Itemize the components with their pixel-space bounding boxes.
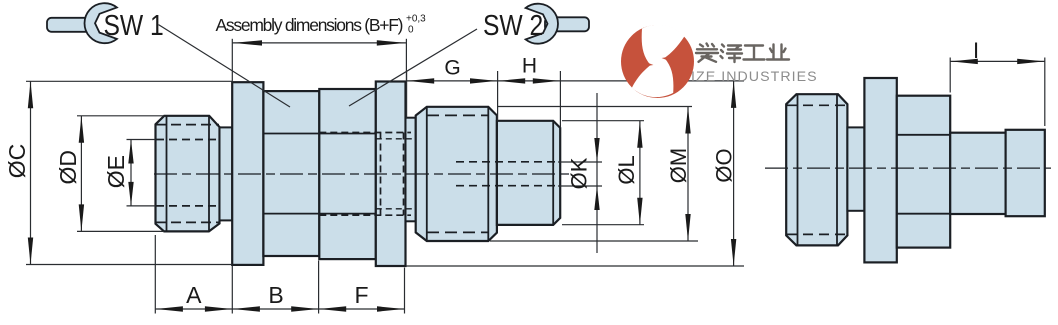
- hidden dashed second pair top: [376, 138, 416, 140]
- svg-text:G: G: [444, 57, 460, 80]
- right view thread block: [786, 94, 847, 245]
- sleeve C: [319, 89, 376, 259]
- hidden bore dashed bottom across C and D: [319, 214, 411, 216]
- dim F arrow right: [377, 306, 404, 311]
- G arrow right: [470, 78, 497, 83]
- dim OK arrow lower pointing up: [594, 186, 599, 210]
- logo red notch right: [662, 55, 685, 66]
- svg-text:SW 2: SW 2: [483, 9, 543, 41]
- hex collar A: [232, 82, 263, 265]
- bottom ext line at collar D right: [404, 268, 406, 314]
- H arrow left: [498, 78, 525, 83]
- dim OC line: [30, 81, 32, 264]
- left bore dashed bottom (OE): [156, 205, 219, 207]
- dim OL arrow up: [637, 121, 642, 148]
- right view thread minor dashed top: [787, 104, 847, 106]
- logo white S band: [632, 25, 685, 97]
- bore dashed line top right: [456, 161, 560, 163]
- logo red notch left: [631, 58, 654, 69]
- bore dashed line bottom right: [456, 185, 560, 187]
- dim OE extension bottom: [127, 205, 156, 207]
- dim F arrow left: [319, 306, 346, 311]
- G arrow left: [407, 78, 434, 83]
- dim OK ext bottom: [558, 185, 602, 187]
- dim OL ext bottom: [562, 224, 644, 226]
- dim OM ext top: [497, 106, 692, 108]
- dim OM arrow up: [685, 107, 690, 134]
- bottom ext line at collar A left: [231, 266, 233, 314]
- right view centerline: [765, 167, 1051, 169]
- assembly arrow right: [377, 40, 406, 45]
- right view thread minor dashed bottom: [787, 233, 847, 235]
- hex collar D: [376, 82, 406, 267]
- neck 1: [220, 127, 233, 220]
- dim OL line: [639, 121, 641, 225]
- svg-text:F: F: [354, 282, 368, 308]
- dim I arrow left: [951, 59, 978, 64]
- dim OK line: [596, 93, 598, 253]
- left thread block: [156, 116, 220, 232]
- dim OE extension top: [127, 139, 156, 141]
- right view end sleeve: [1006, 130, 1045, 216]
- right thread minor dashed bottom: [427, 231, 489, 233]
- assembly arrow left: [233, 40, 262, 45]
- wrench SW2: [526, 4, 589, 44]
- leader line SW1: [159, 25, 291, 107]
- hidden dashed vertical in D right: [403, 133, 405, 216]
- assembly dim extension right: [405, 39, 407, 82]
- svg-text:ØL: ØL: [614, 155, 639, 184]
- right view collar: [864, 78, 896, 262]
- dim B arrow left: [233, 306, 260, 311]
- dim OD arrow down: [79, 204, 84, 231]
- bottom ext line at B C boundary: [318, 261, 320, 314]
- right view thread chamfer left: [797, 94, 799, 245]
- bottom ext line at thread left face: [154, 235, 156, 314]
- dim OM arrow down: [685, 214, 690, 241]
- svg-text:ØE: ØE: [103, 155, 129, 188]
- dim B arrow right: [291, 306, 318, 311]
- left bore dashed top (OE): [156, 139, 219, 141]
- dim I ext left: [949, 58, 951, 93]
- svg-text:+0,3: +0,3: [406, 14, 426, 25]
- H right ext: [559, 71, 561, 128]
- dim I arrow right: [1017, 59, 1044, 64]
- svg-text:H: H: [522, 54, 537, 77]
- tip chamfer line: [552, 121, 554, 225]
- svg-text:I: I: [973, 38, 979, 63]
- svg-text:0: 0: [408, 25, 414, 36]
- tip section: [497, 121, 560, 225]
- right thread chamfer line left: [426, 107, 428, 241]
- dim I line: [950, 60, 1045, 62]
- svg-text:IZE INDUSTRIES: IZE INDUSTRIES: [691, 69, 818, 85]
- dim OC extension bottom: [26, 264, 232, 266]
- right view hex body: [897, 96, 950, 248]
- right view hex flat bottom: [897, 213, 950, 215]
- dim OC arrow up: [28, 81, 33, 108]
- right thread block: [416, 107, 497, 241]
- sleeve flat line bottom: [263, 213, 375, 215]
- dim OD extension top: [77, 115, 164, 117]
- dim OD line: [80, 116, 82, 232]
- svg-text:Assembly dimensions (B+F): Assembly dimensions (B+F): [216, 15, 404, 35]
- dim OC arrow down: [28, 238, 33, 265]
- dim OK arrow upper pointing down: [594, 138, 599, 162]
- dim OM line: [687, 107, 689, 242]
- right view thread chamfer right: [836, 94, 838, 245]
- G left ext above: [406, 71, 408, 118]
- dim OM ext bottom: [490, 240, 698, 242]
- hidden dashed vertical in D left: [380, 133, 382, 216]
- right thread minor dashed top: [427, 114, 489, 116]
- bottom dim line: [155, 308, 404, 310]
- G H dim and OO top extension line: [407, 80, 745, 82]
- dim OO line: [733, 81, 735, 266]
- dim A arrow left: [156, 306, 183, 311]
- left thread chamfer line right: [208, 116, 210, 232]
- dim OO ext bottom: [406, 265, 744, 267]
- dim A arrow right: [205, 306, 232, 311]
- dim OE line: [130, 140, 132, 206]
- dim OO arrow down: [731, 239, 736, 266]
- logo circle: [621, 25, 694, 98]
- right thread chamfer line right: [487, 107, 489, 241]
- right view pipe: [950, 133, 1005, 214]
- dim OL ext top: [562, 120, 644, 122]
- leader line SW2: [349, 29, 477, 106]
- svg-text:ØC: ØC: [4, 144, 30, 179]
- dim OC extension top: [26, 80, 232, 82]
- left thread chamfer line left: [166, 116, 168, 232]
- left thread minor diameter dashed top: [156, 124, 219, 126]
- neck 2: [406, 118, 416, 222]
- dim OD extension bottom: [77, 230, 164, 232]
- svg-text:ØK: ØK: [567, 157, 592, 189]
- right view hex flat top: [897, 134, 950, 136]
- svg-text:A: A: [186, 282, 202, 308]
- dim OE arrow down: [128, 182, 133, 206]
- wrench SW1: [47, 3, 117, 43]
- svg-text:ØO: ØO: [712, 148, 737, 182]
- dim OK ext top: [558, 161, 602, 163]
- sleeve B: [263, 91, 319, 256]
- hidden dashed second pair bottom: [376, 208, 416, 210]
- G right ext: [497, 71, 499, 121]
- dim OL arrow down: [637, 198, 642, 225]
- svg-text:ØD: ØD: [55, 150, 81, 185]
- H arrow right: [533, 78, 560, 83]
- assembly dim extension left: [231, 39, 233, 82]
- left thread minor diameter dashed bottom: [156, 221, 219, 223]
- dim OD arrow up: [79, 116, 84, 143]
- hidden bore dashed top across C and D: [319, 132, 411, 134]
- svg-text:B: B: [268, 282, 283, 308]
- dim I ext right: [1044, 58, 1046, 127]
- main centerline: [154, 173, 573, 175]
- logo chinese text: [696, 44, 789, 63]
- svg-text:SW 1: SW 1: [104, 9, 164, 41]
- right view neck: [847, 127, 864, 210]
- assembly dim line: [232, 42, 406, 44]
- dim OE arrow up: [128, 140, 133, 164]
- dim OO arrow up: [731, 81, 736, 108]
- sleeve flat line top: [263, 133, 375, 135]
- svg-text:ØM: ØM: [666, 148, 691, 183]
